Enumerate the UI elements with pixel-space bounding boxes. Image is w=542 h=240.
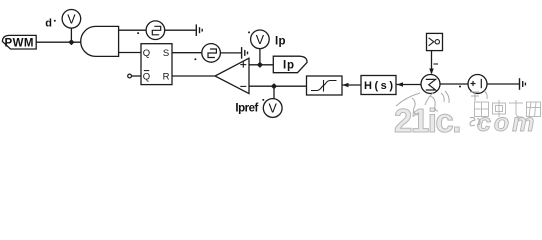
- svg-text:V: V: [269, 102, 278, 116]
- svg-text:S: S: [163, 48, 169, 59]
- svg-text:R: R: [163, 71, 170, 82]
- svg-text:Ip: Ip: [275, 35, 286, 47]
- svg-text:Ipref: Ipref: [235, 103, 258, 115]
- svg-text:Q: Q: [143, 48, 150, 59]
- svg-text:PWM: PWM: [5, 37, 34, 49]
- svg-text:d: d: [45, 17, 52, 29]
- svg-text:com: com: [477, 109, 537, 133]
- svg-text:V: V: [67, 12, 76, 26]
- svg-text:21ic.: 21ic.: [394, 102, 460, 133]
- svg-text:V: V: [256, 33, 265, 47]
- svg-text:Ip: Ip: [283, 60, 294, 72]
- svg-text:Q: Q: [143, 71, 150, 82]
